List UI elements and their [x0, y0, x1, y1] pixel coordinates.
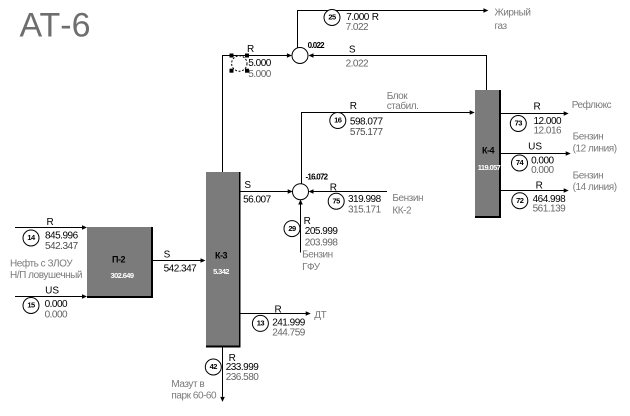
svg-text:R: R [350, 101, 357, 112]
wire mixer M1 to fat-gas line [298, 11, 484, 49]
wire benzin 12 line from K-4 [501, 153, 566, 155]
svg-text:Бензин: Бензин [302, 250, 333, 261]
svg-text:КК-2: КК-2 [392, 206, 412, 217]
svg-text:-16.072: -16.072 [306, 173, 329, 182]
svg-text:газ: газ [495, 21, 508, 32]
svg-text:стабил.: стабил. [387, 100, 419, 112]
wire mazut from K-3 bottom [222, 348, 224, 397]
svg-text:Бензин: Бензин [392, 193, 423, 204]
stream circle 75 [328, 193, 344, 209]
arrowhead into mixer M2 right [309, 189, 314, 194]
svg-text:0.000: 0.000 [45, 309, 68, 320]
arrowhead DT [306, 311, 311, 316]
svg-text:203.998: 203.998 [305, 238, 339, 249]
svg-text:К-4: К-4 [482, 146, 494, 156]
svg-text:542.347: 542.347 [45, 241, 79, 252]
svg-text:US: US [528, 141, 542, 152]
stream circle 74 [512, 155, 528, 171]
svg-text:парк 60-60: парк 60-60 [171, 390, 217, 401]
svg-text:5.000: 5.000 [248, 58, 271, 69]
arrowhead benzin 14 [564, 188, 569, 193]
selection handles [230, 54, 234, 58]
svg-text:Нефть с ЗЛОУ: Нефть с ЗЛОУ [10, 258, 73, 270]
svg-text:S: S [349, 45, 356, 56]
wire benzin 14 line from K-4 [501, 190, 564, 192]
svg-text:244.759: 244.759 [272, 327, 306, 338]
svg-text:73: 73 [515, 119, 523, 128]
svg-text:561.139: 561.139 [533, 204, 567, 215]
wire K-4 top to mixer M1 (S 2.022) [313, 56, 486, 91]
arrowhead into K-4 left [470, 110, 475, 115]
wire K-3 top to mixer M1 [223, 56, 288, 173]
arrowhead into mixer M2 left [288, 189, 293, 194]
wire DT from K-3 [241, 313, 306, 315]
wire reflux from K-4 [501, 113, 564, 115]
svg-text:72: 72 [516, 196, 524, 205]
svg-text:US: US [45, 286, 59, 297]
svg-text:ДТ: ДТ [314, 310, 326, 321]
arrowhead into mixer M2 bottom [298, 200, 303, 205]
svg-text:R: R [247, 44, 254, 55]
svg-text:ГФУ: ГФУ [302, 262, 321, 273]
arrowhead benzin 12 [566, 151, 571, 156]
arrowhead reflux [564, 111, 569, 116]
mixer M2 [293, 184, 309, 200]
arrowhead into K-3 left [201, 258, 206, 263]
svg-text:R: R [275, 304, 282, 315]
svg-text:R: R [534, 102, 541, 113]
svg-text:315.171: 315.171 [348, 204, 382, 215]
svg-text:236.580: 236.580 [226, 372, 260, 383]
svg-text:(12 линия): (12 линия) [573, 144, 617, 155]
svg-text:205.999: 205.999 [305, 226, 339, 237]
stream circle 29 [284, 221, 300, 237]
arrowhead mazut down [220, 397, 225, 402]
svg-text:12.016: 12.016 [534, 126, 563, 137]
arrowhead into P-2 top left [82, 225, 87, 230]
svg-text:R: R [47, 217, 54, 228]
svg-text:25: 25 [328, 13, 336, 22]
svg-text:56.007: 56.007 [243, 195, 272, 206]
svg-text:5.342: 5.342 [213, 267, 229, 276]
svg-text:К-3: К-3 [215, 251, 227, 261]
svg-text:598.077: 598.077 [350, 117, 384, 128]
svg-text:16: 16 [334, 116, 342, 125]
stream circle 25 [324, 10, 340, 26]
svg-text:13: 13 [257, 319, 265, 328]
svg-text:5.000: 5.000 [248, 69, 271, 80]
arrowhead into mixer M1 left [287, 53, 292, 58]
svg-text:(14 линия): (14 линия) [573, 182, 617, 193]
stream circle 72 [512, 193, 528, 209]
svg-text:Н/П ловушечный: Н/П ловушечный [10, 270, 82, 281]
svg-text:Бензин: Бензин [573, 132, 604, 143]
wire mixer M2 up to K-4 (Blok stabil) [302, 113, 470, 185]
svg-text:Жирный: Жирный [495, 8, 531, 19]
svg-text:0.022: 0.022 [308, 41, 326, 50]
stream circle 73 [510, 116, 526, 132]
svg-text:29: 29 [288, 224, 296, 233]
svg-text:R: R [536, 181, 543, 192]
furnace block P-2 [87, 227, 153, 298]
arrowhead into P-2 bottom left [82, 294, 87, 299]
svg-text:15: 15 [27, 301, 35, 310]
wire R benzin GFU into mixer M2 from below [300, 204, 302, 252]
wire S from K-3 to mixer M2 [240, 191, 288, 193]
wire R benzin KK-2 into mixer M2 [313, 191, 387, 193]
stream circle 13 [252, 315, 268, 331]
svg-text:845.996: 845.996 [45, 230, 79, 241]
svg-text:S: S [164, 249, 171, 260]
svg-text:119.057: 119.057 [478, 163, 501, 172]
stream circle 42 [205, 359, 221, 375]
wire S from P-2 to K-3 [153, 260, 201, 262]
svg-text:319.998: 319.998 [348, 194, 382, 205]
svg-text:П-2: П-2 [112, 255, 125, 265]
column block K-3 [206, 172, 241, 348]
svg-text:42: 42 [210, 362, 218, 371]
mixer M1 [292, 48, 308, 64]
svg-text:R: R [330, 183, 337, 194]
svg-text:АТ-6: АТ-6 [20, 6, 91, 44]
stream circle 14 [23, 230, 39, 246]
stream circle 16 [330, 113, 346, 129]
wire R neft feed into P-2 [15, 227, 82, 229]
svg-text:Бензин: Бензин [573, 171, 604, 182]
selected stream circle on K-3 overhead wire [232, 56, 247, 71]
svg-text:Рефлюкс: Рефлюкс [572, 99, 612, 111]
svg-text:542.347: 542.347 [164, 263, 198, 274]
svg-text:S: S [244, 180, 251, 191]
svg-text:0.000: 0.000 [531, 165, 554, 176]
column block K-4 [475, 90, 501, 218]
svg-text:7.022: 7.022 [346, 22, 369, 33]
svg-text:2.022: 2.022 [346, 58, 369, 69]
stream circle 15 [23, 298, 39, 314]
arrowhead into mixer M1 right [309, 53, 314, 58]
svg-text:75: 75 [333, 196, 341, 205]
svg-text:R: R [372, 12, 379, 23]
arrowhead fat gas [483, 8, 488, 13]
wire US feed into P-2 [15, 296, 82, 298]
svg-text:Мазут в: Мазут в [171, 379, 204, 390]
svg-text:575.177: 575.177 [350, 127, 384, 138]
svg-text:302.649: 302.649 [111, 271, 134, 280]
svg-text:Блок: Блок [387, 91, 409, 102]
